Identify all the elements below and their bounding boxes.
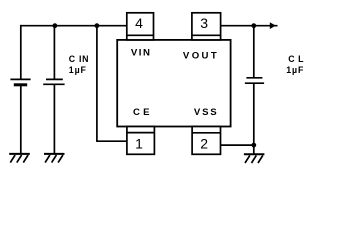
svg-text:3: 3 <box>200 15 208 31</box>
svg-text:1µF: 1µF <box>286 65 304 75</box>
wire top-right VOUT rail <box>220 25 278 27</box>
label CIN value <box>69 54 89 75</box>
ground (CIN) <box>44 154 65 163</box>
node D (VSS / CL ground junction) <box>251 143 256 148</box>
wire CL top <box>253 26 255 78</box>
svg-text:2: 2 <box>200 135 208 151</box>
svg-text:VOUT: VOUT <box>183 50 219 61</box>
svg-text:C IN: C IN <box>69 54 89 64</box>
svg-text:VSS: VSS <box>194 107 219 118</box>
node A (VIN rail / CIN junction) <box>53 23 58 28</box>
wire CE branch horizontal <box>96 140 127 142</box>
ground (output) <box>244 154 265 163</box>
wire CE branch vertical <box>96 26 98 142</box>
pin 1 box <box>127 127 154 155</box>
wire battery bottom <box>20 86 22 154</box>
pin 2 box <box>192 127 220 155</box>
wire battery top <box>20 25 22 79</box>
svg-text:C L: C L <box>288 54 304 64</box>
svg-text:1: 1 <box>135 136 143 152</box>
svg-text:1µF: 1µF <box>69 65 87 75</box>
label CL value <box>286 54 304 75</box>
output arrow <box>270 22 276 29</box>
wire CL bottom <box>253 84 255 154</box>
ground (battery) <box>9 154 30 163</box>
node B (VIN rail / CE branch junction) <box>95 23 100 28</box>
wire CIN bottom <box>53 85 55 154</box>
wire top-left VIN rail <box>20 25 127 27</box>
pin 4 box <box>127 13 154 40</box>
capacitor CIN <box>43 79 64 84</box>
capacitor CL <box>245 78 264 83</box>
wire CIN top <box>53 26 55 79</box>
node C (VOUT rail / CL junction) <box>251 23 256 28</box>
svg-text:4: 4 <box>135 15 143 31</box>
pin 3 box <box>192 13 221 40</box>
battery VIN source <box>10 79 30 84</box>
op-amp U1 regulator body <box>117 40 230 127</box>
svg-text:VIN: VIN <box>131 47 152 58</box>
svg-text:CE: CE <box>133 107 153 118</box>
wire VSS to ground <box>220 144 254 146</box>
